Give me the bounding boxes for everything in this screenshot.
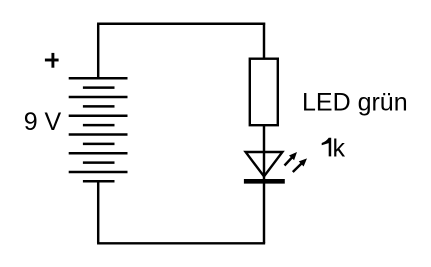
battery B1 plate 1 long (+) [69, 77, 128, 80]
wire bottom-left corner up to battery minus terminal [97, 181, 99, 243]
LED D1 light arrow 2 [293, 158, 307, 172]
resistor R1 [250, 59, 278, 126]
battery B1 plate 9 long [69, 152, 128, 155]
battery B1 plate 7 long [69, 133, 128, 136]
battery B1 plate 12 short (-) [83, 180, 115, 183]
wire top horizontal [97, 23, 265, 25]
label 1k digit 1 [322, 138, 332, 157]
battery B1 plate 3 long [69, 96, 128, 99]
svg-text:LED grün: LED grün [302, 89, 408, 117]
battery B1 plate 6 short [83, 124, 115, 127]
LED D1 cathode bar [244, 179, 285, 184]
LED D1 light arrow 1 [285, 152, 298, 166]
wire battery plus terminal up to top-left corner [97, 24, 99, 79]
svg-text:k: k [333, 134, 346, 162]
wire bottom horizontal [97, 242, 265, 244]
battery B1 plate 10 short [83, 161, 115, 164]
plus polarity symbol [45, 53, 59, 68]
battery B1 plate 4 short [83, 105, 115, 108]
battery B1 plate 11 long [69, 171, 128, 174]
svg-text:9 V: 9 V [24, 108, 62, 136]
LED D1 anode triangle [246, 152, 283, 176]
battery B1 plate 2 short [83, 86, 115, 89]
battery B1 plate 8 short [83, 143, 115, 146]
battery B1 plate 5 long [69, 115, 128, 118]
wire resistor R1 through LED D1 down to bottom-right corner [263, 125, 265, 243]
wire top-right corner down into resistor R1 [263, 23, 265, 59]
